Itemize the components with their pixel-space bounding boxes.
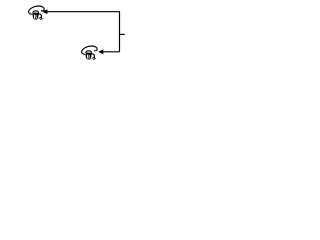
wire: bottom horizontal — [103, 51, 119, 53]
wire: top horizontal — [47, 11, 119, 13]
icon B: coffee cup clipart (bottom-middle) — [82, 46, 98, 60]
arrowhead into icon A — [42, 9, 47, 14]
icon A: coffee cup clipart (top-left) — [29, 6, 45, 20]
stub tick on vertical — [120, 33, 125, 35]
arrowhead into icon B — [98, 49, 103, 54]
wire: vertical — [119, 11, 121, 52]
